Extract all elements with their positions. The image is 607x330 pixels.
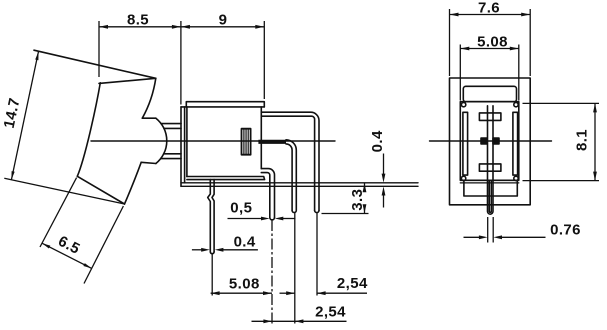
arrowheads 0.76 [479,235,488,239]
arrowheads 3.3 [363,183,367,192]
paddle bottom shoulder [141,162,156,163]
dim 7.6 line [450,14,531,16]
pin 2 (bottom bent pin) [261,169,274,218]
svg-text:5.08: 5.08 [229,276,260,293]
extension line pin1 center [211,254,213,296]
dim 14.7 bottom extension line to corner D [4,178,124,204]
svg-text:5.08: 5.08 [477,33,508,50]
rivet top-right [514,102,518,106]
front plate inner line [184,107,186,183]
paddle top edge [99,78,156,83]
body bottom lines with step [187,177,265,180]
rivet top-left [461,102,465,106]
body left wall [186,107,188,177]
svg-text:6.5: 6.5 [55,233,82,258]
left slot [463,112,468,175]
bottom bracket [464,180,517,196]
dim 0.4 line [192,249,203,251]
dim 3.3 stubs [364,183,366,189]
rivet bottom-right [514,176,518,180]
lower crossbar [479,164,501,171]
front view body [460,102,519,181]
svg-text:2,54: 2,54 [315,304,346,321]
dim 2,54 lower line [252,320,347,322]
paddle back edge line A (extension for 14.7) [34,50,156,78]
contact pad left (filled) [481,138,487,144]
arrowheads 0.4 [201,248,210,252]
front view outer box [450,78,531,205]
pin bottom reference line [322,213,369,215]
dim 5.08 line [460,48,519,50]
arrowheads 6.5 [42,243,50,248]
extension line pin4 [316,213,318,296]
svg-text:14.7: 14.7 [1,96,24,130]
arrowheads 2,54 lower [263,319,272,323]
svg-text:8.1: 8.1 [574,129,591,151]
extension line pin3 [294,213,296,324]
arrowheads right 0.4 [382,174,386,183]
dim 0,5 line [228,218,263,220]
pin 3 (middle bent pin, thick contact bar) [258,140,286,144]
paddle bottom edge [77,176,124,204]
dim 6.5 extension lines [40,178,77,247]
pin 1 (crimped straight pin) [212,180,214,252]
upper crossbar [479,113,501,121]
body right wall [260,107,262,169]
centerline (side view) [91,140,335,142]
dim 5.08 extension lines [459,45,461,101]
svg-text:7.6: 7.6 [478,0,500,16]
dim 0.4 vertical tails [383,154,385,176]
svg-text:0.4: 0.4 [234,233,256,250]
dim 8.1 extension lines [523,102,600,104]
paddle upper-right edge [142,78,156,118]
svg-text:9: 9 [219,11,228,28]
svg-text:0.4: 0.4 [369,130,386,152]
arrowheads 8.5 / 9 [99,25,108,29]
arrowheads 0,5 [261,217,270,221]
dim 2,54 upper: tails [280,292,295,294]
vent grille on body [242,129,251,155]
contact pad right (filled) [493,138,499,144]
svg-text:0.76: 0.76 [550,222,581,239]
dim 5.08 line [211,292,272,294]
arrowheads 7.6 [450,13,459,17]
body top cap [186,102,264,107]
svg-text:8.5: 8.5 [127,11,149,28]
dim 6.5 line [42,243,92,268]
paddle pivot ball arc [156,118,167,163]
paddle lower-right edge [125,162,142,204]
dim line 8.5 and 9 [99,26,264,28]
centerline front view [430,140,552,142]
dim 8.5 / 9 extension lines [98,21,100,77]
dim 0.76 tails [464,236,481,238]
right slot [513,112,518,175]
svg-text:3.3: 3.3 [349,189,366,211]
front view top cap [463,86,516,101]
svg-text:2,54: 2,54 [337,275,368,292]
body top line / front plate top [181,106,264,108]
extension line pin2 center (dash-dot) [271,220,273,324]
dim 7.6 extension lines [449,9,451,76]
dim 0.76 extension lines [487,217,489,243]
center shaft / pin front [488,106,494,214]
arrowheads 5.08 [211,291,220,295]
arrowheads 14.7 [35,52,38,61]
neck (actuator shaft) lines [161,123,181,125]
dim 8.1 line [594,103,596,180]
front plate outer line [180,107,182,186]
arrowheads 8.1 [593,103,597,112]
paddle front (left) curved edge [77,83,100,177]
rivet bottom-left [461,176,465,180]
pin 4 (top bent pin) [261,112,319,210]
paddle top shoulder [142,117,156,119]
flange line upper (0.4 gap) [181,182,418,184]
flange line lower (0.4 gap) [181,185,418,187]
arrowheads 2,54 upper [286,291,295,295]
center pin inner contour [489,181,491,212]
svg-text:0,5: 0,5 [230,199,252,216]
dim 14.7 line [11,52,38,180]
arrowheads 5.08 front [460,47,469,51]
bottom second line [460,182,519,184]
